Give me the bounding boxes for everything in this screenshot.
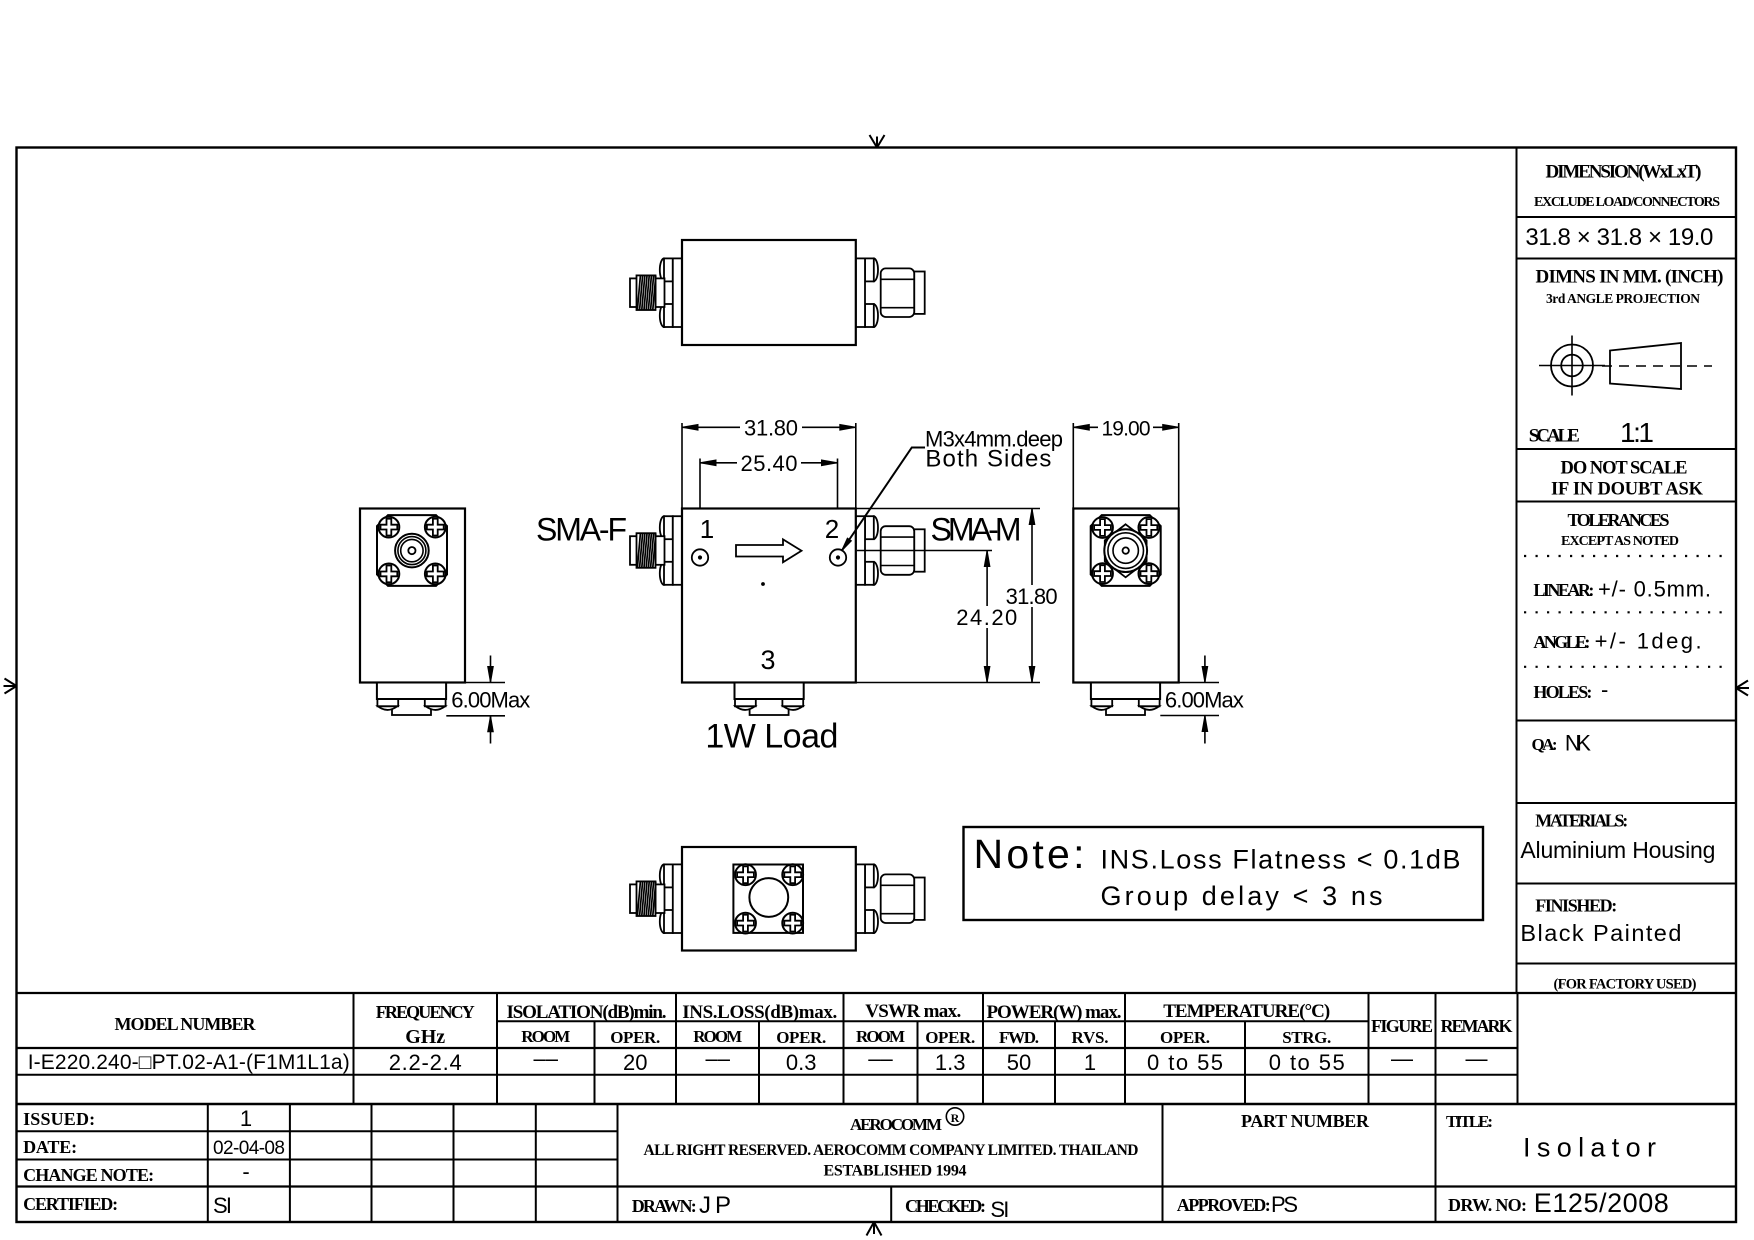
left side view: load tab	[377, 683, 446, 716]
svg-text:DIMENSION(WxLxT): DIMENSION(WxLxT)	[1546, 162, 1702, 183]
top centering mark	[870, 135, 885, 148]
svg-text:INS.Loss Flatness < 0.1dB: INS.Loss Flatness < 0.1dB	[1101, 845, 1461, 875]
dimension 31.80 (height)	[1006, 509, 1058, 683]
spec table data row	[28, 1046, 1488, 1075]
svg-text:EXCLUDE LOAD/CONNECTORS: EXCLUDE LOAD/CONNECTORS	[1534, 195, 1720, 210]
svg-text:EXCEPT AS NOTED: EXCEPT AS NOTED	[1561, 534, 1679, 549]
right side view: flange screw top-left	[1092, 517, 1113, 538]
bottom view: SMA-F connector	[630, 864, 682, 933]
svg-text:STRG.: STRG.	[1282, 1028, 1331, 1047]
svg-text:FREQUENCY: FREQUENCY	[376, 1002, 475, 1022]
svg-text:2.2-2.4: 2.2-2.4	[389, 1050, 462, 1075]
svg-text:-: -	[1601, 677, 1608, 702]
svg-text:0 to 55: 0 to 55	[1147, 1050, 1223, 1075]
bottom view: load screw top-left	[735, 864, 756, 885]
svg-text:MATERIALS:: MATERIALS:	[1535, 811, 1628, 831]
svg-text:20: 20	[623, 1050, 647, 1075]
tolerances header	[1561, 510, 1679, 549]
svg-text:QA:: QA:	[1532, 735, 1558, 754]
right centering mark	[1736, 681, 1749, 696]
extension line from bottom right corner	[856, 682, 1040, 684]
right side view: flange screw bottom-left	[1092, 563, 1113, 584]
bottom view: load screw top-right	[782, 864, 803, 885]
svg-text:OPER.: OPER.	[776, 1028, 826, 1047]
svg-text:Aluminium Housing: Aluminium Housing	[1520, 837, 1715, 863]
drawn cell	[632, 1192, 731, 1219]
bottom view: isolator body	[682, 847, 856, 951]
dimension 31.80 (width)	[682, 415, 856, 508]
svg-text:POWER(W) max.: POWER(W) max.	[987, 1002, 1122, 1023]
dotted separator 2	[1524, 611, 1730, 613]
svg-text:TITLE:: TITLE:	[1446, 1112, 1493, 1131]
svg-text:AEROCOMM: AEROCOMM	[850, 1115, 942, 1134]
right side view: SMA-M interface circles	[1104, 529, 1147, 572]
svg-text:––: ––	[534, 1046, 559, 1071]
bottom view: load flange square	[733, 865, 803, 933]
svg-text:OPER.: OPER.	[1160, 1028, 1210, 1047]
svg-text:SMA-F: SMA-F	[536, 512, 627, 548]
dimension 24.20	[956, 551, 1017, 683]
svg-text:JP: JP	[699, 1192, 731, 1219]
scale note	[1529, 417, 1654, 448]
svg-text:02-04-08: 02-04-08	[213, 1138, 285, 1159]
linear tolerance	[1533, 577, 1711, 602]
top view: SMA-F connector	[630, 258, 682, 327]
specification table grid	[17, 993, 1737, 1104]
svg-text:6.00Max: 6.00Max	[451, 688, 530, 713]
left side view: flange screw top-left	[379, 517, 400, 538]
svg-text:R: R	[951, 1111, 960, 1125]
svg-text:0.3: 0.3	[786, 1050, 817, 1075]
svg-text:FINISHED:: FINISHED:	[1535, 896, 1617, 916]
svg-text:TEMPERATURE(°C): TEMPERATURE(°C)	[1163, 1001, 1330, 1022]
svg-text:E125/2008: E125/2008	[1534, 1188, 1669, 1218]
checked cell	[905, 1196, 1009, 1222]
svg-text:3: 3	[760, 645, 775, 675]
svg-text:1:1: 1:1	[1620, 417, 1654, 448]
svg-text:ROOM: ROOM	[856, 1027, 905, 1046]
svg-text:I-E220.240-□PT.02-A1-(F1M1L1a): I-E220.240-□PT.02-A1-(F1M1L1a)	[28, 1051, 350, 1074]
extension line from connector centerline	[857, 550, 992, 552]
svg-text:50: 50	[1007, 1050, 1031, 1075]
do not scale note	[1551, 459, 1704, 500]
svg-text:31.80: 31.80	[1006, 584, 1058, 609]
left centering mark	[4, 679, 17, 694]
drawing number cell	[1448, 1188, 1669, 1218]
svg-text:3rd ANGLE PROJECTION: 3rd ANGLE PROJECTION	[1546, 291, 1700, 306]
bottom view: load screw bottom-left	[735, 913, 756, 934]
port 1 tapped hole	[692, 549, 708, 565]
svg-text:ANGLE:: ANGLE:	[1533, 632, 1590, 652]
company block	[644, 1108, 1139, 1180]
svg-text:LINEAR:: LINEAR:	[1533, 580, 1594, 600]
left side view: body	[360, 509, 465, 683]
svg-text:31.80: 31.80	[744, 415, 798, 440]
left side view: flange screw bottom-left	[379, 564, 400, 585]
svg-text:APPROVED:: APPROVED:	[1177, 1195, 1271, 1215]
revision and title block grid	[17, 1104, 1737, 1222]
svg-text:(FOR FACTORY USED): (FOR FACTORY USED)	[1554, 977, 1697, 993]
svg-text:INS.LOSS(dB)max.: INS.LOSS(dB)max.	[682, 1002, 837, 1023]
sidebar: dimension header	[1534, 162, 1720, 211]
svg-text:NK: NK	[1565, 731, 1591, 756]
top view: isolator body	[682, 240, 856, 345]
extension line from top right corner	[856, 508, 1040, 510]
dimension 19.00 (depth)	[1073, 417, 1178, 508]
svg-text:SI: SI	[213, 1193, 232, 1218]
svg-text:CERTIFIED:: CERTIFIED:	[23, 1194, 118, 1214]
left side view: flange screw bottom-right	[425, 564, 446, 585]
bottom centering mark	[867, 1222, 882, 1236]
dotted separator 3	[1524, 666, 1730, 668]
svg-text:DRW. NO:: DRW. NO:	[1448, 1195, 1527, 1215]
svg-text:REMARK: REMARK	[1441, 1016, 1513, 1036]
svg-text:GHz: GHz	[405, 1026, 445, 1048]
svg-text:MODEL NUMBER: MODEL NUMBER	[115, 1014, 257, 1034]
svg-text:ROOM: ROOM	[521, 1027, 570, 1046]
svg-text:––: ––	[705, 1046, 730, 1071]
svg-text:HOLES:: HOLES:	[1533, 682, 1592, 702]
svg-text:OPER.: OPER.	[925, 1028, 975, 1047]
front view: 1W load tab	[735, 683, 804, 716]
svg-text:—: —	[1391, 1046, 1413, 1071]
svg-text:RVS.: RVS.	[1072, 1028, 1109, 1047]
port 2 tapped hole	[830, 549, 846, 565]
svg-text:19.00: 19.00	[1102, 417, 1151, 440]
third angle projection symbol	[1539, 336, 1712, 396]
svg-text:DO NOT SCALE: DO NOT SCALE	[1561, 459, 1688, 479]
bottom view: SMA-M connector	[856, 864, 925, 933]
change note row	[23, 1159, 250, 1185]
svg-text:FWD.: FWD.	[999, 1028, 1039, 1047]
holes tolerance	[1533, 677, 1608, 702]
svg-text:6.00Max: 6.00Max	[1165, 688, 1244, 713]
svg-text:31.8 × 31.8 × 19.0: 31.8 × 31.8 × 19.0	[1525, 224, 1713, 251]
front view: SMA-F connector	[630, 516, 682, 585]
svg-text:ISOLATION(dB)min.: ISOLATION(dB)min.	[507, 1002, 667, 1023]
certified row	[23, 1193, 232, 1218]
svg-text:ROOM: ROOM	[693, 1027, 742, 1046]
svg-text:SI: SI	[990, 1197, 1009, 1222]
approved cell	[1177, 1192, 1298, 1217]
svg-text:VSWR max.: VSWR max.	[865, 1001, 961, 1022]
right side view: SMA-M hex nut	[1105, 524, 1147, 577]
svg-text:1: 1	[1084, 1050, 1096, 1075]
dimension 25.40 (hole spacing)	[700, 451, 838, 509]
body center point	[762, 583, 765, 586]
left side view: flange screw top-right	[425, 517, 446, 538]
QA row	[1532, 731, 1592, 756]
materials row	[1520, 811, 1715, 864]
svg-text:DATE:: DATE:	[23, 1137, 77, 1157]
svg-text:Note:: Note:	[974, 831, 1085, 877]
left side view: flange plate	[377, 515, 447, 586]
svg-text:1: 1	[240, 1106, 252, 1131]
svg-text:1: 1	[700, 514, 714, 544]
svg-text:CHANGE NOTE:: CHANGE NOTE:	[23, 1165, 154, 1185]
svg-text:ESTABLISHED 1994: ESTABLISHED 1994	[824, 1163, 967, 1180]
left side view: SMA-F interface circles	[395, 534, 429, 568]
title cell	[1446, 1112, 1656, 1163]
svg-text:OPER.: OPER.	[610, 1028, 660, 1047]
svg-text:Group delay < 3 ns: Group delay < 3 ns	[1101, 881, 1383, 911]
note box	[964, 827, 1484, 920]
dimension 6.00Max (right view)	[1160, 656, 1244, 744]
svg-text:Both Sides: Both Sides	[925, 446, 1051, 473]
svg-text:25.40: 25.40	[741, 451, 798, 476]
spec table headers	[115, 1001, 1513, 1048]
svg-text:SMA-M: SMA-M	[931, 512, 1022, 548]
finished row	[1520, 896, 1681, 947]
right side view: flange screw top-right	[1139, 517, 1160, 538]
svg-text:ALL RIGHT RESERVED. AEROCOMM: ALL RIGHT RESERVED. AEROCOMM COMPANY LIM…	[644, 1142, 1139, 1159]
svg-text:PS: PS	[1271, 1192, 1298, 1217]
svg-text:0 to 55: 0 to 55	[1269, 1050, 1345, 1075]
svg-text:CHECKED:: CHECKED:	[905, 1196, 986, 1216]
svg-text:+/- 0.5mm.: +/- 0.5mm.	[1598, 577, 1711, 602]
svg-text:—: —	[1466, 1046, 1488, 1071]
svg-text:––: ––	[868, 1046, 893, 1071]
front view: SMA-M connector	[856, 516, 925, 585]
sidebar frame	[1517, 148, 1737, 994]
svg-text:-: -	[242, 1159, 249, 1184]
sidebar: units note	[1536, 267, 1724, 307]
svg-text:1.3: 1.3	[935, 1050, 966, 1075]
svg-text:+/- 1deg.: +/- 1deg.	[1595, 629, 1702, 654]
svg-text:ISSUED:: ISSUED:	[23, 1109, 95, 1129]
bottom view: load port hole	[749, 878, 788, 917]
angle tolerance	[1533, 629, 1701, 654]
date row	[23, 1137, 285, 1159]
top view: SMA-M connector	[856, 258, 925, 327]
right side view: flange plate	[1091, 515, 1161, 586]
svg-text:TOLERANCES: TOLERANCES	[1568, 510, 1670, 530]
front view: isolator body	[682, 509, 856, 683]
bottom view: load screw bottom-right	[782, 913, 803, 934]
svg-text:IF IN DOUBT ASK: IF IN DOUBT ASK	[1551, 480, 1704, 500]
dimension 6.00Max (left view)	[446, 656, 530, 744]
svg-text:DIMNS IN MM. (INCH): DIMNS IN MM. (INCH)	[1536, 267, 1724, 288]
right side view: flange screw bottom-right	[1139, 563, 1160, 584]
svg-text:Black Painted: Black Painted	[1520, 920, 1681, 946]
issued row	[23, 1106, 252, 1131]
svg-text:SCALE: SCALE	[1529, 426, 1580, 447]
svg-text:1W Load: 1W Load	[705, 718, 838, 756]
svg-text:DRAWN:: DRAWN:	[632, 1196, 697, 1216]
right side view: load tab	[1091, 683, 1160, 716]
dotted separator 1	[1524, 555, 1730, 557]
svg-text:FIGURE: FIGURE	[1371, 1016, 1433, 1036]
forward direction arrow	[736, 539, 802, 562]
right side view: body	[1073, 509, 1178, 683]
svg-text:Isolator: Isolator	[1523, 1133, 1656, 1163]
svg-text:2: 2	[825, 514, 839, 544]
leader note M3x4mm.deep Both Sides	[842, 427, 1064, 552]
svg-text:PART NUMBER: PART NUMBER	[1241, 1111, 1370, 1131]
